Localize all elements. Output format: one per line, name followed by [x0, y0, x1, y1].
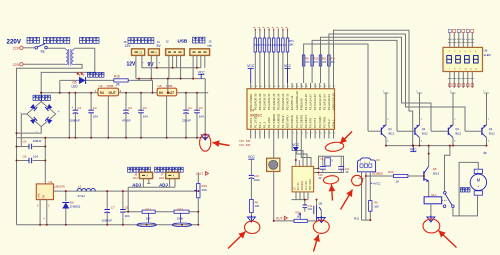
svg-text:4LED: 4LED: [484, 53, 491, 57]
svg-text:f: f: [278, 28, 279, 32]
wire J6 pin1: [142, 179, 144, 188]
svg-text:DS18B20: DS18B20: [372, 172, 384, 176]
LED D5 (indicator): [72, 72, 86, 89]
svg-text:P3.7/RD: P3.7/RD: [322, 117, 326, 128]
transistor Q1 9012: [368, 91, 395, 145]
wire buzzer top: [273, 139, 275, 159]
svg-text:+Vin: +Vin: [37, 193, 41, 199]
svg-text:+: +: [72, 105, 74, 109]
junction dots middle: [273, 159, 320, 222]
svg-text:RL1: RL1: [432, 193, 438, 197]
svg-text:XTAL2: XTAL2: [327, 119, 331, 128]
label ADJ bold 2: [159, 183, 168, 188]
wire J4 pin1: [150, 55, 152, 78]
svg-text:220UF: 220UF: [182, 119, 191, 123]
wire LED row left drop: [59, 80, 61, 92]
sensor U6 DS18B20: [358, 158, 384, 176]
svg-text:100K: 100K: [177, 217, 184, 221]
wire U5 gnd pin: [166, 96, 168, 138]
svg-text:DS1302: DS1302: [300, 180, 304, 190]
svg-text:LED: LED: [72, 85, 79, 89]
svg-text:USB: USB: [178, 38, 188, 43]
svg-text:10K: 10K: [202, 188, 207, 192]
svg-text:R2A: R2A: [296, 210, 301, 214]
wire L to switch: [23, 47, 34, 49]
label 9V bold: [148, 61, 161, 69]
diode D6 1N5822: [62, 191, 80, 225]
svg-text:9012: 9012: [422, 132, 428, 136]
wire link to LED row: [138, 79, 140, 81]
label output terminal (adj): [128, 167, 151, 172]
label +VCC (sensor): [370, 181, 381, 185]
svg-text:P0.4/AD4-35: P0.4/AD4-35: [272, 93, 276, 110]
wire buzzer bottom to OUT: [273, 172, 275, 221]
wires DS1302 bottom: [292, 192, 309, 200]
svg-text:C11: C11: [308, 204, 313, 208]
svg-text:ADJ: ADJ: [133, 176, 139, 180]
svg-text:470: 470: [305, 61, 310, 64]
svg-text:10K: 10K: [288, 43, 293, 47]
junction dots left: [16, 67, 207, 226]
svg-text:U4: U4: [250, 108, 254, 112]
svg-text:100UF: 100UF: [33, 139, 42, 143]
svg-text:PSEN-29: PSEN-29: [299, 98, 303, 110]
svg-text:9013: 9013: [433, 171, 440, 175]
svg-text:P1.7/SCK: P1.7/SCK: [281, 115, 285, 128]
svg-text:C11: C11: [345, 167, 350, 171]
wire VCC rail (emitters): [386, 145, 487, 147]
svg-text:30P: 30P: [246, 143, 251, 147]
svg-text:VCC: VCC: [284, 64, 292, 68]
svg-text:104: 104: [33, 154, 38, 158]
svg-text:J6: J6: [134, 172, 137, 176]
wire J5 pin1: [135, 55, 137, 78]
svg-text:220: 220: [13, 63, 19, 67]
wire Q5 collector to rail: [428, 146, 430, 167]
bus line outer: [334, 30, 413, 145]
svg-text:P2.3/A11-24: P2.3/A11-24: [322, 94, 326, 110]
annotation arrow (relay gnd): [439, 231, 457, 248]
svg-text:C5: C5: [23, 139, 27, 143]
svg-text:IN: IN: [100, 91, 104, 95]
svg-text:P3.4/T0: P3.4/T0: [309, 117, 313, 128]
svg-text:C2: C2: [93, 106, 97, 110]
label pin1: [42, 217, 46, 219]
svg-text:ADJ: ADJ: [159, 176, 165, 180]
svg-text:C1: C1: [78, 106, 82, 110]
svg-text:L1: L1: [78, 184, 82, 188]
capacitor C5 100UF: [17, 139, 46, 149]
crystal Y2 32768: [314, 156, 350, 180]
capacitor C8 104: [120, 191, 130, 225]
svg-text:R16: R16: [114, 75, 120, 79]
svg-text:R13: R13: [388, 170, 394, 174]
svg-text:+: +: [478, 184, 480, 188]
wire ground rail: [17, 137, 209, 139]
svg-text:104: 104: [199, 115, 204, 119]
resistor R8 and bus line to Q2: [311, 40, 397, 131]
svg-text:P3.6/WR: P3.6/WR: [318, 116, 322, 128]
svg-text:Q1: Q1: [388, 127, 392, 131]
connector J4 (9V out): [148, 49, 159, 56]
power VCC (RP common): [284, 64, 292, 83]
label alligator-clip output: [155, 167, 184, 172]
wire terminal common minus: [142, 67, 201, 69]
svg-text:OUT: OUT: [109, 91, 117, 95]
wire J3 pin1: [192, 55, 194, 78]
wire J3 pins mid: [197, 55, 201, 67]
RTC U7 DS1302: [292, 166, 314, 192]
wire right rail of LM section: [197, 173, 199, 225]
wire J3 pin4: [204, 55, 206, 67]
label 12V bold: [127, 61, 145, 68]
annotation arrow (Q6 gnd): [313, 235, 320, 252]
net labels P0 (red): [254, 27, 289, 31]
svg-text:+VCC: +VCC: [373, 181, 382, 185]
label bridge (rectifier): [33, 95, 50, 100]
svg-text:U3: U3: [49, 180, 53, 184]
label output terminals: [123, 38, 154, 48]
transistor Q2 9012: [397, 91, 428, 145]
wire bridge bottom to left rail: [17, 127, 42, 134]
wire switch to transformer: [47, 47, 65, 49]
resistor R7 and bus line to Q1: [302, 44, 368, 131]
connector J3 (USB): [190, 49, 210, 56]
label indicator-light: [88, 72, 105, 77]
svg-text:9012: 9012: [388, 132, 394, 136]
capacitor C1 1000UF: [70, 93, 82, 138]
svg-text:U6: U6: [376, 158, 380, 162]
svg-text:R22: R22: [178, 207, 184, 211]
svg-text:10K: 10K: [255, 204, 260, 208]
svg-text:P0.1/AD1-38: P0.1/AD1-38: [258, 93, 262, 110]
svg-text:Y2: Y2: [320, 157, 324, 161]
svg-text:IN: IN: [159, 91, 163, 95]
svg-text:9012: 9012: [489, 132, 495, 136]
svg-text:12V: 12V: [127, 62, 137, 68]
annotation arrow (crystal caps): [329, 185, 336, 201]
resistor R16: [114, 75, 128, 87]
wire J2 pin1: [168, 55, 170, 78]
svg-text:C1: C1: [188, 106, 192, 110]
svg-text:P0.2/AD2-37: P0.2/AD2-37: [263, 93, 267, 110]
power VCC (MCU pin40): [247, 64, 255, 83]
ground (relay): [427, 216, 435, 223]
wire secondary bottom loop and left rail: [17, 64, 83, 224]
wire bottom rail: [17, 224, 199, 226]
transistor Q6 (mosfet): [307, 200, 322, 221]
capacitor C2 104: [88, 93, 98, 138]
svg-text:P00P01P02P03P04: P00P01P02P03P04: [254, 43, 287, 47]
connector J5 (12V out): [132, 49, 145, 56]
annotation ellipse (sensor): [352, 175, 363, 185]
potentiometer R22 100K: [172, 207, 191, 226]
svg-text:R4: R4: [255, 200, 259, 204]
power VCC (DS1302): [292, 143, 299, 166]
wires display bottom pins: [448, 72, 474, 89]
wire link to reg row: [167, 79, 169, 93]
svg-text:R21: R21: [146, 207, 152, 211]
regulator U5 7805: [157, 84, 177, 96]
wire adj common: [128, 186, 175, 188]
svg-text:RST GND: RST GND: [309, 179, 312, 190]
text 220V input / rocker switch / transformer labels: [7, 37, 100, 45]
svg-text:104: 104: [308, 207, 313, 211]
svg-text:RST/VPD: RST/VPD: [286, 115, 290, 128]
wire J4 pin2: [156, 55, 158, 67]
regulator U2 7805: [95, 84, 122, 96]
svg-text:12V: 12V: [125, 44, 132, 48]
svg-text:470UF: 470UF: [122, 119, 131, 123]
svg-text:U2: U2: [99, 84, 103, 88]
annotation arrow (sensor): [341, 190, 353, 210]
connector J7 ADJ: [159, 172, 179, 180]
power VCC (USB): [198, 70, 206, 78]
svg-text:C4: C4: [199, 106, 203, 110]
labels C15 C16 30P: [239, 139, 251, 147]
svg-text:470: 470: [331, 61, 336, 64]
resistor R6 10K (sensor pullup): [369, 201, 380, 212]
svg-text:P2.2/A10-23: P2.2/A10-23: [327, 94, 331, 110]
svg-text:usb: usb: [207, 44, 212, 48]
resistor R4 10K (reset): [250, 199, 260, 212]
switch Sa: [35, 44, 47, 54]
buzzer BZ1: [267, 158, 280, 171]
relay contacts SW: [443, 192, 459, 216]
wire rail to contact: [445, 146, 450, 192]
svg-text:+C9: +C9: [254, 174, 260, 178]
wire J2 pin4: [180, 55, 182, 78]
wire LED row: [60, 79, 153, 81]
svg-text:J7: J7: [160, 172, 163, 176]
svg-text:OUT: OUT: [196, 172, 203, 176]
label ADJ bold 1: [132, 183, 141, 188]
svg-text:P2.7/A15-28: P2.7/A15-28: [304, 94, 308, 110]
svg-text:P0.3/AD3-36: P0.3/AD3-36: [267, 93, 271, 110]
svg-text:C3: C3: [128, 106, 132, 110]
transformer T1: [65, 48, 74, 65]
svg-text:VCC: VCC: [248, 155, 255, 159]
potentiometer R23 10K: [194, 183, 207, 197]
svg-text:C4: C4: [143, 106, 147, 110]
svg-text:P3.1/TXD: P3.1/TXD: [295, 115, 299, 128]
transistor Q5 9013: [424, 166, 440, 182]
svg-text:Q4: Q4: [489, 127, 493, 131]
power VCC (reset): [248, 155, 255, 175]
annotation circle (relay gnd): [423, 219, 440, 233]
wire J7 pin1: [169, 179, 171, 188]
bridge rectifier (diamond): [20, 97, 61, 134]
svg-text:Vcc X1: Vcc X1: [297, 182, 300, 191]
svg-text:470: 470: [322, 61, 327, 64]
svg-text:Q5: Q5: [433, 167, 437, 171]
svg-text:89C51/2: 89C51/2: [250, 114, 262, 118]
svg-text:XTAL1: XTAL1: [332, 119, 336, 128]
inductor L1 47uH: [77, 184, 95, 198]
svg-text:VCC: VCC: [247, 64, 255, 68]
svg-text:ALE/PROG-30: ALE/PROG-30: [295, 91, 299, 110]
svg-text:P3.0/RXD: P3.0/RXD: [290, 115, 294, 128]
annotation ellipse (crystal caps): [323, 175, 339, 185]
capacitor C11 104: [303, 200, 313, 212]
svg-text:7805: 7805: [166, 84, 173, 88]
wire USB gnd drop: [204, 79, 206, 134]
wire J7 pin2: [174, 179, 176, 188]
connector J2 (USB): [166, 49, 185, 56]
svg-text:C15: C15: [239, 139, 244, 143]
capacitor C4 104: [138, 93, 148, 138]
svg-text:104: 104: [93, 115, 98, 119]
svg-text:P1.6/MISO: P1.6/MISO: [276, 113, 280, 128]
annotation ellipse (EA node): [325, 141, 344, 152]
wire secondary top loop to bridge: [41, 48, 95, 101]
label USB output: [178, 37, 206, 43]
svg-text:CLK I/O: CLK I/O: [305, 181, 308, 190]
svg-text:P0.6/AD6-33: P0.6/AD6-33: [281, 93, 285, 110]
svg-text:R6: R6: [374, 201, 378, 205]
svg-text:P1.3: P1.3: [263, 122, 267, 128]
label J3 usb: [207, 40, 212, 48]
svg-text:U8: U8: [484, 48, 488, 52]
label dc: [484, 151, 488, 155]
svg-text:dc: dc: [484, 151, 488, 155]
svg-text:7805: 7805: [107, 84, 114, 88]
transistor Q4 9012: [465, 91, 495, 145]
wire pot row: [123, 211, 198, 213]
potentiometer R21 100: [137, 207, 156, 226]
wire reset to gnd: [250, 213, 252, 222]
wire Vin drop to U3: [44, 138, 46, 184]
wire terminal common plus: [136, 78, 205, 80]
transistor Q3 9012: [431, 91, 462, 145]
svg-text:M: M: [477, 178, 481, 183]
svg-text:+: +: [159, 61, 161, 65]
annotation arrow (EA node): [340, 132, 352, 144]
svg-text:VCC: VCC: [198, 70, 206, 74]
wire J6 pin2: [147, 179, 150, 184]
resistor R13 1K: [366, 170, 424, 183]
connector J6 ADJ: [133, 172, 153, 180]
label OUT (dac): [276, 216, 288, 220]
svg-text:1000UF: 1000UF: [70, 119, 81, 123]
label R11 net: [354, 217, 360, 221]
svg-text:100: 100: [146, 217, 151, 221]
capacitor C13 104: [194, 93, 204, 138]
capacitor C6 104: [17, 154, 46, 163]
wire adj drop: [127, 187, 129, 211]
svg-text:10K: 10K: [374, 204, 379, 208]
svg-text:47uH: 47uH: [78, 194, 85, 198]
svg-text:Q6: Q6: [319, 202, 323, 206]
svg-text:J2: J2: [166, 40, 170, 44]
annotation circle (reset gnd): [245, 221, 260, 233]
resistor network RP1: [254, 38, 294, 52]
wires sensor pins: [358, 172, 371, 221]
svg-text:C6: C6: [23, 154, 27, 158]
wires display top segments: [448, 29, 474, 47]
wire U3 output rail: [54, 190, 199, 192]
wire R16 row right drop: [152, 80, 154, 92]
label OUT arrow: [196, 172, 209, 176]
svg-text:P1.5/MOSI: P1.5/MOSI: [272, 114, 276, 128]
svg-text:P1.2: P1.2: [258, 122, 262, 128]
svg-text:P2.4/A12-25: P2.4/A12-25: [318, 94, 322, 110]
capacitor C12 220UF: [182, 93, 192, 138]
svg-text:10uF: 10uF: [254, 178, 260, 182]
label J2: [166, 40, 170, 44]
svg-text:Sa: Sa: [41, 49, 45, 53]
potentiometer R2A 1K: [274, 210, 308, 222]
svg-text:9012: 9012: [455, 132, 461, 136]
label J4 9V: [157, 40, 162, 48]
wire U3 pin gnd: [39, 200, 41, 225]
svg-text:1N5822: 1N5822: [70, 204, 81, 208]
svg-text:Q3: Q3: [455, 127, 459, 131]
wire N to transformer primary: [23, 63, 65, 65]
svg-text:R10: R10: [314, 57, 319, 60]
relay RL1: [424, 181, 447, 219]
svg-text:1K: 1K: [297, 214, 300, 218]
svg-text:104: 104: [125, 214, 130, 218]
MCU U4 89C51: [247, 89, 336, 130]
terminal J1 pin N (220): [13, 62, 23, 66]
power VCC (emitter rail): [410, 146, 417, 152]
svg-text:U5: U5: [158, 84, 162, 88]
motor M1 fan: [470, 169, 486, 195]
ground (near C12): [201, 134, 209, 141]
svg-text:FB: FB: [42, 195, 46, 199]
terminal J1 pin L (220): [13, 46, 23, 50]
svg-text:Q2: Q2: [422, 127, 426, 131]
wire +V rail: [41, 92, 208, 94]
svg-text:P1.0/T2: P1.0/T2: [249, 117, 253, 128]
capacitor C9 10uF (reset): [249, 174, 261, 199]
ground (reset): [247, 216, 255, 223]
svg-text:P0.7/AD7-32: P0.7/AD7-32: [286, 93, 290, 110]
regulator U3 LM2576: [36, 180, 65, 208]
label 4LED: [484, 48, 491, 57]
label fan: [460, 188, 470, 192]
svg-text:9V: 9V: [157, 44, 162, 48]
wire bridge left down: [21, 114, 27, 147]
svg-text:P3.2/INT0: P3.2/INT0: [299, 115, 303, 128]
annotation ellipse (gnd near C12): [200, 134, 211, 151]
svg-text:GND/VSS-20: GND/VSS-20: [332, 93, 336, 111]
svg-text:R11: R11: [354, 217, 360, 221]
wire cap column A: [68, 93, 70, 138]
svg-text:P3.5/T1: P3.5/T1: [313, 117, 317, 128]
wires P0 bus to resistor network: [255, 29, 287, 84]
annotation circle (Q6 gnd): [313, 220, 329, 233]
wires MCU to DS1302: [292, 139, 311, 167]
MCU pin stubs and numbers: [250, 83, 336, 139]
capacitor C7 1000UF: [102, 191, 115, 225]
wire U2 gnd pin: [107, 96, 109, 138]
capacitor C3 470UF: [122, 93, 132, 138]
resistor R10 and bus line to Q4: [328, 34, 465, 131]
resistor R9 and bus line to Q3: [319, 37, 431, 131]
svg-text:C16: C16: [239, 143, 244, 147]
svg-text:470: 470: [314, 61, 319, 64]
svg-text:104: 104: [143, 115, 148, 119]
svg-text:U7: U7: [293, 186, 297, 190]
svg-text:P1.4/SS: P1.4/SS: [267, 117, 271, 128]
svg-text:P2.6/A14-27: P2.6/A14-27: [309, 94, 313, 110]
svg-text:30P: 30P: [246, 139, 251, 143]
display DS1 4LED: [443, 47, 483, 71]
ground (Q6): [317, 216, 325, 223]
svg-text:220: 220: [13, 47, 19, 51]
